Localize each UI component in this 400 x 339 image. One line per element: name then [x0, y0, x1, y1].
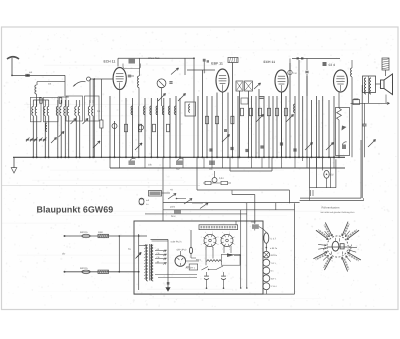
svg-text:A2F 1: A2F 1	[271, 277, 277, 280]
svg-text:892/2a: 892/2a	[271, 254, 278, 257]
svg-text:1: 1	[201, 235, 202, 238]
svg-text:TA: TA	[128, 248, 131, 251]
svg-text:1 TA 4: 1 TA 4	[271, 285, 278, 288]
svg-text:ECH 11: ECH 11	[104, 59, 116, 63]
svg-text:GR-UPt.2: GR-UPt.2	[177, 249, 188, 252]
svg-text:1: 1	[218, 235, 219, 238]
svg-text:EBF 11: EBF 11	[211, 61, 223, 65]
svg-text:1: 1	[218, 243, 219, 246]
svg-text:1: 1	[222, 248, 223, 251]
svg-text:1: 1	[234, 235, 235, 238]
svg-text:0000: 0000	[98, 231, 104, 234]
svg-text:6V: 6V	[331, 174, 334, 177]
svg-text:888 1: 888 1	[196, 259, 202, 262]
svg-text:ø 86 2a: ø 86 2a	[270, 247, 278, 250]
svg-text:Drat: Drat	[171, 215, 176, 218]
svg-text:Blaupunkt 6GW69: Blaupunkt 6GW69	[37, 204, 114, 214]
svg-text:1: 1	[222, 231, 223, 234]
svg-text:Röhrenkasten: Röhrenkasten	[322, 207, 340, 210]
svg-text:1: 1	[212, 231, 213, 234]
svg-text:Cl 4: Cl 4	[329, 63, 336, 67]
svg-text:von unten auf gleicher Richtun: von unten auf gleicher Richtung Kurs	[320, 211, 354, 214]
svg-text:1: 1	[205, 231, 206, 234]
svg-text:ant: ant	[29, 71, 33, 74]
svg-text:1: 1	[234, 243, 235, 246]
svg-text:0,04: 0,04	[219, 177, 224, 180]
svg-text:ant: ant	[48, 83, 52, 86]
svg-text:Ohne Tast.: Ohne Tast.	[148, 57, 160, 60]
svg-text:auf: auf	[146, 199, 149, 202]
svg-text:690/2A: 690/2A	[80, 231, 88, 234]
svg-text:690/2A: 690/2A	[80, 267, 88, 270]
svg-text:ECH 11: ECH 11	[264, 60, 276, 64]
svg-text:1: 1	[201, 243, 202, 246]
svg-text:pu/st: pu/st	[170, 206, 175, 209]
svg-text:1: 1	[229, 231, 230, 234]
svg-text:7 Ω 1: 7 Ω 1	[271, 262, 277, 265]
svg-text:AF 1: AF 1	[191, 266, 196, 269]
svg-text:1: 1	[229, 248, 230, 251]
svg-text:volle Pl.(?): volle Pl.(?)	[171, 241, 182, 244]
svg-text:U 4.7: U 4.7	[271, 238, 277, 241]
